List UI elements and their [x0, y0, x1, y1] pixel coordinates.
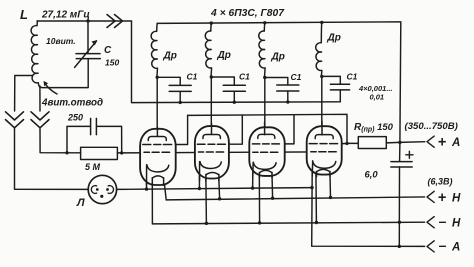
svg-text:Н: Н: [452, 193, 461, 205]
svg-text:5 М: 5 М: [85, 162, 101, 172]
svg-text:+: +: [438, 134, 447, 150]
svg-text:А: А: [451, 137, 460, 149]
svg-text:4 × 6П3С, Г807: 4 × 6П3С, Г807: [210, 8, 285, 19]
svg-text:А: А: [451, 242, 460, 254]
svg-text:(350...750В): (350...750В): [405, 121, 458, 132]
svg-text:250: 250: [67, 113, 83, 123]
svg-text:+: +: [438, 190, 447, 206]
svg-text:–: –: [439, 213, 447, 229]
svg-text:Др: Др: [163, 51, 177, 62]
svg-text:R(пр) 150: R(пр) 150: [354, 122, 394, 134]
svg-text:Л: Л: [76, 197, 85, 209]
svg-text:150: 150: [105, 58, 119, 68]
svg-text:–: –: [439, 237, 447, 253]
svg-text:Н: Н: [452, 217, 461, 229]
svg-text:10вит.: 10вит.: [46, 36, 76, 46]
svg-text:Др: Др: [327, 33, 341, 44]
svg-text:Др: Др: [217, 50, 231, 61]
svg-text:0,01: 0,01: [370, 93, 385, 102]
svg-text:C1: C1: [347, 72, 358, 82]
svg-text:C1: C1: [239, 72, 250, 82]
svg-text:27,12 мГц: 27,12 мГц: [41, 10, 90, 21]
svg-text:6,0: 6,0: [365, 169, 379, 180]
svg-text:C: C: [104, 45, 112, 56]
svg-text:Др: Др: [271, 52, 285, 63]
svg-text:C1: C1: [187, 72, 198, 82]
svg-text:(6,3В): (6,3В): [428, 176, 453, 186]
svg-text:C1: C1: [291, 72, 302, 82]
svg-text:L: L: [20, 7, 28, 22]
svg-text:4вит.отвод: 4вит.отвод: [41, 97, 103, 108]
